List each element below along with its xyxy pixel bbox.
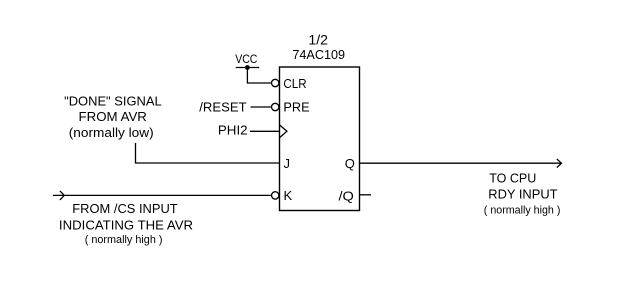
svg-text:Q: Q	[345, 156, 355, 171]
wire VCC to CLR pin	[247, 68, 271, 84]
arrowhead on Q output wire	[557, 159, 562, 168]
svg-text:( normally high ): ( normally high )	[85, 234, 163, 246]
pin K active-low bubble	[272, 192, 279, 199]
svg-text:J: J	[284, 156, 291, 171]
clock input triangle	[280, 125, 287, 138]
svg-text:/Q: /Q	[339, 188, 354, 203]
svg-text:K: K	[284, 188, 293, 203]
svg-text:PHI2: PHI2	[218, 122, 248, 137]
pin PRE active-low bubble	[272, 103, 279, 110]
svg-text:CLR: CLR	[283, 76, 306, 91]
svg-text:(normally low): (normally low)	[69, 125, 154, 140]
svg-text:FROM /CS INPUT: FROM /CS INPUT	[72, 201, 177, 216]
wire /Q stub	[360, 194, 372, 196]
arrowhead on /CS wire	[60, 191, 64, 200]
wire /RESET to PRE	[251, 106, 271, 108]
wire Q output to CPU RDY	[360, 162, 562, 164]
label "DONE" SIGNAL FROM AVR (normally low)	[64, 93, 162, 139]
svg-text:TO CPU: TO CPU	[489, 170, 536, 185]
label TO CPU RDY INPUT ( normally high )	[484, 170, 561, 216]
svg-text:1/2: 1/2	[308, 32, 328, 48]
label FROM /CS INPUT INDICATING THE AVR ( normally high )	[59, 201, 193, 246]
svg-text:INDICATING THE AVR: INDICATING THE AVR	[59, 218, 193, 233]
svg-text:FROM AVR: FROM AVR	[79, 109, 147, 124]
flip-flop U1 74AC109 body	[280, 67, 360, 211]
power symbol VCC	[235, 52, 259, 68]
junction dot on VCC net	[245, 65, 250, 70]
svg-text:RDY INPUT: RDY INPUT	[488, 187, 557, 202]
wire DONE signal to J input	[136, 143, 280, 163]
svg-text:( normally high ): ( normally high )	[484, 204, 561, 216]
svg-text:PRE: PRE	[283, 99, 310, 114]
wire PHI2 to clock input	[250, 130, 280, 132]
wire FROM /CS input to K	[53, 194, 271, 196]
svg-text:74AC109: 74AC109	[292, 47, 345, 62]
svg-text:/RESET: /RESET	[199, 100, 246, 115]
svg-text:"DONE" SIGNAL: "DONE" SIGNAL	[64, 93, 162, 108]
svg-text:VCC: VCC	[235, 52, 257, 66]
pin CLR active-low bubble	[272, 79, 279, 86]
